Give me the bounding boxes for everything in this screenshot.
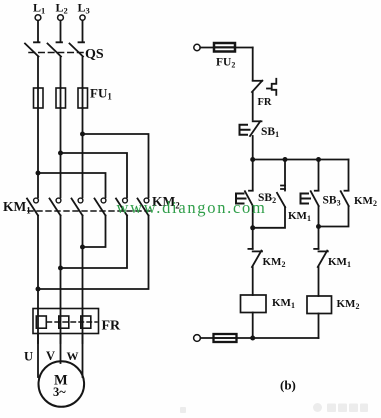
node bus junction SB2 xyxy=(250,157,255,162)
wire FU1 pole2 down to KM1 contact xyxy=(60,108,62,198)
node rejoin SB2/KM1aux xyxy=(250,225,255,230)
node junction L3 branch xyxy=(80,132,85,137)
wire bus to SB3 xyxy=(318,160,320,191)
contactor KM1 main contact pole2 xyxy=(50,198,61,215)
pushbutton SB3 (NO start rev) xyxy=(301,191,319,206)
node control top terminal xyxy=(194,44,200,50)
FR heater element 1 xyxy=(36,309,46,344)
node junction L1 branch xyxy=(36,171,41,176)
wire QS to FU1 pole3 xyxy=(82,57,84,89)
KM1 KM2 linkage dashed line xyxy=(28,210,152,212)
FR NC contact in control xyxy=(252,79,276,95)
wire KM1 aux rejoin xyxy=(253,207,285,228)
node bus junction KM1 aux xyxy=(283,157,288,162)
wire bus to SB2 xyxy=(252,160,254,191)
wire L2 to QS xyxy=(60,21,62,43)
fuse FU1 pole 3 xyxy=(78,88,88,108)
contactor KM2 auxiliary NO contact xyxy=(341,191,349,206)
FR linkage dashed line xyxy=(47,321,97,323)
fuse FU1 pole 2 xyxy=(56,88,66,108)
pushbutton SB2 (NO start fwd) xyxy=(236,191,253,206)
fuse FU2 lower xyxy=(214,334,237,342)
wire QS to FU1 pole1 xyxy=(37,57,39,89)
contactor KM1 NC interlock contact xyxy=(314,249,328,267)
coil KM1 xyxy=(241,295,267,313)
node L3 terminal xyxy=(80,15,85,20)
wire KM2 pole1 output cross to phase3 xyxy=(83,216,106,248)
watermark bottom right gray xyxy=(180,403,368,413)
wire terminal to FU2 xyxy=(200,47,253,49)
wire SB1 to bus xyxy=(252,136,254,160)
node rejoin SB3/KM2aux xyxy=(316,224,321,229)
wire L2 branch to KM2 pole2 xyxy=(61,153,128,198)
wire bus corner to KM2 aux xyxy=(348,160,350,191)
switch QS pole 3 xyxy=(70,42,85,56)
wire KM2 aux rejoin xyxy=(319,206,349,227)
node junction phase2 output xyxy=(58,266,63,271)
wire to KM1 NC interlock xyxy=(318,227,320,249)
wire control top bus xyxy=(253,159,349,161)
wire FR to motor U xyxy=(37,334,39,378)
wire to KM2 NC interlock xyxy=(252,228,254,249)
wire FU1 pole3 down to KM1 contact xyxy=(82,108,84,198)
wire KM2 NC to KM1 coil xyxy=(252,267,254,295)
node junction phase1 output xyxy=(36,287,41,292)
contactor KM1 main contact pole1 xyxy=(27,198,38,215)
switch QS pole 1 xyxy=(25,42,40,56)
wire KM2 pole3 output cross to phase1 xyxy=(38,216,149,290)
pushbutton SB1 (NC stop) xyxy=(240,121,262,136)
fuse FU1 pole 1 xyxy=(34,88,44,108)
node L1 terminal xyxy=(35,15,41,21)
wire SB2 down xyxy=(252,206,254,228)
wire KM2 pole2 output to phase2 xyxy=(61,216,128,269)
motor M circle xyxy=(39,361,85,407)
wire KM1 coil down xyxy=(252,313,254,339)
node junction phase3 output xyxy=(80,245,85,250)
wire FR to motor W xyxy=(82,334,84,378)
wire L3 branch to KM2 pole3 xyxy=(83,134,149,198)
thermal relay FR box xyxy=(33,309,99,334)
wire KM1 pole2 down xyxy=(60,216,62,309)
switch QS pole 2 xyxy=(48,42,63,56)
contactor KM2 NC interlock contact xyxy=(248,249,262,267)
contactor KM1 auxiliary NO contact xyxy=(277,186,285,208)
fuse FU2 xyxy=(214,43,235,52)
FR heater element 3 xyxy=(81,309,91,344)
node L2 terminal xyxy=(58,15,64,21)
wire QS to FU1 pole2 xyxy=(60,57,62,89)
wire FR to motor V xyxy=(60,334,62,364)
wire KM1 pole3 down xyxy=(82,216,84,309)
node bottom junction xyxy=(250,336,255,341)
contactor KM2 main contact pole1 xyxy=(95,198,106,215)
wire bottom bus xyxy=(200,337,318,339)
node bus junction SB3 xyxy=(316,157,321,162)
wire SB3 down xyxy=(318,206,320,227)
wire FU1 pole1 down to KM1 contact xyxy=(37,108,39,198)
FR heater element 2 xyxy=(59,309,69,344)
wire bus to KM1 aux xyxy=(284,160,286,191)
contactor KM1 main contact pole3 xyxy=(72,198,83,215)
wire L1 to QS xyxy=(37,21,39,43)
wire L1 branch to KM2 pole1 xyxy=(38,173,106,198)
svg-text:www.diangon.com: www.diangon.com xyxy=(117,198,267,217)
QS linkage dashed line xyxy=(29,52,86,54)
wire FR contact to SB1 xyxy=(252,92,254,120)
wire FU2 down to FR contact xyxy=(252,48,254,81)
node junction L2 branch xyxy=(58,151,63,156)
node control bottom terminal xyxy=(194,335,201,342)
wire KM2 coil down xyxy=(318,314,320,339)
wire L3 to QS xyxy=(82,21,84,43)
contactor KM2 main contact pole3 xyxy=(138,198,149,215)
coil KM2 xyxy=(307,296,332,314)
wire KM1 NC to KM2 coil xyxy=(318,267,320,296)
contactor KM2 main contact pole2 xyxy=(116,198,127,215)
wire KM1 pole1 down xyxy=(37,216,39,309)
